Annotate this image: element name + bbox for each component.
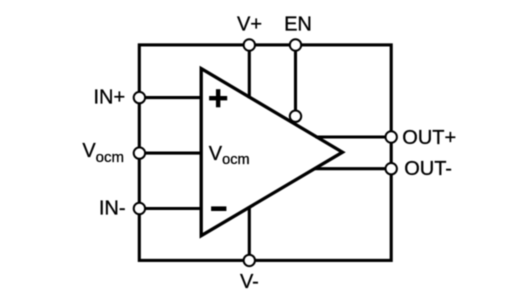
svg-text:V-: V- xyxy=(240,271,259,293)
wire IN- xyxy=(139,207,202,210)
pin circle IN- xyxy=(134,203,145,214)
svg-text:OUT+: OUT+ xyxy=(402,127,456,149)
pin circle V- xyxy=(244,255,255,266)
svg-text:Vocm: Vocm xyxy=(82,140,124,166)
op-amp triangle xyxy=(201,69,342,236)
non-inverting input plus sign xyxy=(209,89,227,107)
svg-text:EN: EN xyxy=(284,14,312,36)
svg-text:IN+: IN+ xyxy=(94,87,126,109)
EN node circle on op-amp xyxy=(290,111,301,122)
inverting input minus sign xyxy=(211,206,226,211)
svg-text:OUT-: OUT- xyxy=(404,158,452,180)
wire EN xyxy=(294,45,297,116)
wire V- xyxy=(248,207,251,261)
pin circle VOCM xyxy=(134,147,145,158)
svg-text:Vocm: Vocm xyxy=(209,143,250,168)
pin circle V+ xyxy=(244,39,255,50)
package outline box xyxy=(139,45,391,261)
wire V+ xyxy=(248,45,251,98)
pin circle OUT- xyxy=(386,163,397,174)
wire OUT- xyxy=(315,167,392,170)
pin circle EN xyxy=(290,39,301,50)
wire IN+ xyxy=(139,96,202,99)
wire VOCM xyxy=(139,152,202,155)
pin circle IN+ xyxy=(134,92,145,103)
svg-text:IN-: IN- xyxy=(99,198,126,220)
svg-text:V+: V+ xyxy=(237,14,262,36)
wire OUT+ xyxy=(316,135,392,138)
pin circle OUT+ xyxy=(386,131,397,142)
